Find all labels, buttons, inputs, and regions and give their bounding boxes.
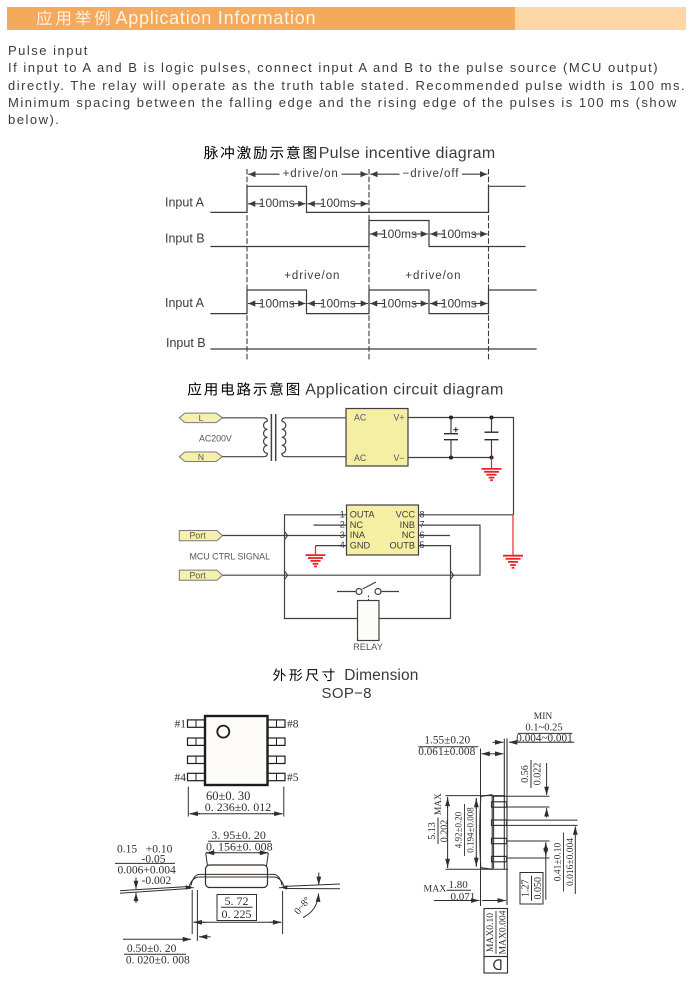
svg-text:100ms: 100ms bbox=[259, 196, 295, 210]
width dimension line bbox=[190, 813, 200, 815]
svg-text:+drive/on: +drive/on bbox=[405, 270, 461, 282]
svg-text:MAX0.004: MAX0.004 bbox=[497, 910, 508, 954]
flatness box bbox=[484, 909, 508, 957]
body end view outline bbox=[480, 795, 493, 870]
body left extension line bbox=[480, 749, 482, 907]
svg-text:0.56: 0.56 bbox=[520, 765, 531, 783]
lead tip line outer bbox=[506, 739, 508, 906]
hop mark OUTA-INB crossing bbox=[285, 571, 288, 579]
timing diagram title bbox=[204, 146, 218, 159]
svg-text:0. 020±0. 008: 0. 020±0. 008 bbox=[126, 955, 190, 967]
svg-text:Application Information: Application Information bbox=[116, 8, 317, 28]
Port 1 flag bbox=[179, 531, 222, 541]
left thickness arrow down bbox=[135, 878, 137, 890]
left tolerance underline bbox=[115, 862, 175, 864]
svg-text:0.050: 0.050 bbox=[533, 877, 544, 900]
svg-text:0.202: 0.202 bbox=[440, 820, 451, 843]
svg-text:−drive/off: −drive/off bbox=[403, 168, 460, 180]
wire NC pin2 stub bbox=[314, 524, 347, 526]
svg-text:0. 225: 0. 225 bbox=[222, 907, 252, 921]
svg-text:V−: V− bbox=[393, 453, 404, 463]
waveform Input A row1 bbox=[211, 186, 525, 212]
flatness symbol box bbox=[484, 957, 508, 974]
0.56 pin lines bbox=[492, 795, 549, 797]
1.27 boxed rotated text bbox=[520, 873, 543, 905]
foot extension line inner bbox=[196, 890, 198, 941]
wire VCC from rail to pin8 bbox=[419, 514, 514, 516]
relay contact switch bbox=[337, 591, 356, 593]
svg-text:MIN: MIN bbox=[534, 712, 553, 722]
100ms arrows B row1 seg2 bbox=[431, 233, 445, 235]
pin 7 bbox=[268, 738, 286, 745]
transformer T1 primary coil bbox=[264, 421, 268, 453]
capacitor C2 bbox=[491, 418, 493, 432]
dashed line t1 bbox=[246, 170, 248, 362]
waveform Input B row1 bbox=[211, 221, 525, 247]
4.92 rotated text bbox=[454, 804, 476, 856]
waveform Input A row2 bbox=[211, 290, 536, 314]
svg-text:RELAY: RELAY bbox=[353, 642, 383, 652]
ground G2 drop bbox=[503, 515, 523, 568]
left thickness arrow up bbox=[135, 893, 137, 903]
svg-text:INB: INB bbox=[400, 520, 415, 530]
header title bbox=[37, 8, 317, 28]
svg-text:0.194±0.008: 0.194±0.008 bbox=[466, 807, 476, 853]
svg-text:SOP−8: SOP−8 bbox=[322, 685, 372, 702]
svg-text:0.50±0. 20: 0.50±0. 20 bbox=[127, 943, 177, 955]
svg-text:VCC: VCC bbox=[396, 510, 416, 520]
pin 8 bbox=[268, 720, 286, 727]
lead length underline bbox=[418, 746, 478, 748]
svg-text:#8: #8 bbox=[287, 719, 299, 731]
right thickness arrow down bbox=[318, 873, 320, 885]
body bottom extension bbox=[446, 868, 509, 870]
left foot bbox=[188, 887, 194, 889]
circuit diagram title bbox=[188, 382, 201, 396]
relay driver IC U2 bbox=[347, 505, 419, 555]
wire V+ rail bbox=[408, 418, 514, 515]
transformer T1 secondary coil bbox=[282, 421, 286, 453]
right lead wedge leader bbox=[285, 884, 341, 886]
svg-text:0. 236±0. 012: 0. 236±0. 012 bbox=[205, 800, 272, 814]
svg-text:1.55±0.20: 1.55±0.20 bbox=[424, 735, 470, 747]
switch to coil dotted link bbox=[368, 596, 370, 601]
waveform Input B row2 bbox=[211, 348, 536, 350]
svg-text:100ms: 100ms bbox=[441, 297, 477, 311]
svg-text:Dimension: Dimension bbox=[344, 667, 418, 684]
svg-text:AC200V: AC200V bbox=[199, 434, 232, 444]
svg-text:+drive/on: +drive/on bbox=[283, 168, 339, 180]
svg-text:1.27: 1.27 bbox=[521, 880, 532, 898]
bottom width extension left bbox=[191, 890, 193, 934]
foot dimension arrow bbox=[199, 936, 211, 938]
svg-text:+drive/on: +drive/on bbox=[284, 270, 340, 282]
wire L to transformer bbox=[222, 418, 267, 422]
svg-text:5. 72: 5. 72 bbox=[225, 894, 249, 908]
pin shoulder line bbox=[493, 796, 495, 869]
pin stub 1 bbox=[492, 802, 507, 807]
svg-text:Port: Port bbox=[190, 531, 207, 541]
foot leader line bbox=[123, 938, 183, 940]
wire V- rail bbox=[408, 457, 492, 459]
pin stub 3 bbox=[492, 838, 507, 843]
svg-text:0~8°: 0~8° bbox=[292, 895, 313, 917]
terminal L bbox=[179, 413, 222, 423]
wire INB via Port2 bbox=[222, 525, 480, 575]
top width extension right bbox=[267, 853, 269, 866]
svg-text:INA: INA bbox=[350, 530, 366, 540]
svg-text:V+: V+ bbox=[393, 413, 404, 423]
wire OUTB loop right bbox=[379, 546, 451, 619]
wire OUTA loop left bbox=[285, 515, 358, 619]
100ms arrows A row2 seg3 bbox=[371, 303, 385, 305]
package body side view bbox=[206, 865, 268, 888]
hop mark OUTA-INA crossing bbox=[285, 531, 288, 539]
svg-text:0.022: 0.022 bbox=[533, 763, 544, 786]
bottom width dimension line bbox=[194, 921, 205, 923]
lead shoulder top line bbox=[191, 874, 282, 885]
svg-text:100ms: 100ms bbox=[381, 297, 417, 311]
svg-text:#1: #1 bbox=[175, 719, 187, 731]
transformer T1 core bbox=[270, 414, 272, 461]
standoff dim arrows bbox=[493, 741, 504, 743]
top width extension left bbox=[206, 853, 208, 866]
svg-text:Input B: Input B bbox=[165, 231, 205, 245]
wire Port1 to INA bbox=[222, 535, 346, 537]
pin stub 4 bbox=[492, 856, 507, 861]
svg-text:5.13: 5.13 bbox=[427, 822, 438, 840]
wire NC pin6 stub bbox=[419, 535, 451, 537]
pin 5 bbox=[268, 773, 286, 780]
svg-text:0. 156±0. 008: 0. 156±0. 008 bbox=[206, 840, 273, 854]
ground G3 bbox=[306, 546, 326, 567]
pin 6 bbox=[268, 756, 286, 763]
top width dimension line bbox=[206, 852, 216, 854]
Port 2 flag bbox=[179, 570, 222, 580]
right foot bbox=[279, 887, 285, 889]
terminal N bbox=[179, 452, 222, 462]
svg-text:-0.002: -0.002 bbox=[142, 875, 172, 887]
0.41 pin lines bbox=[507, 819, 578, 821]
width extension line right bbox=[283, 787, 285, 817]
wire secondary bottom to converter bbox=[282, 453, 346, 457]
svg-text:100ms: 100ms bbox=[381, 227, 417, 241]
body top extension bbox=[446, 795, 506, 797]
pin1 index dot bbox=[217, 726, 229, 738]
1.27 pin lines bbox=[507, 840, 550, 842]
pin 3 bbox=[188, 756, 206, 763]
svg-text:100ms: 100ms bbox=[320, 297, 356, 311]
bottom width box bbox=[217, 895, 257, 921]
svg-text:Input A: Input A bbox=[165, 296, 205, 310]
svg-text:MAX: MAX bbox=[424, 884, 447, 895]
ground G1 bbox=[482, 458, 502, 481]
100ms arrows A row2 seg1 bbox=[249, 303, 263, 305]
pin 1 bbox=[188, 720, 206, 727]
foot text underline bbox=[124, 953, 186, 955]
+drive/on annotation row1 bbox=[249, 173, 279, 175]
pin 2 bbox=[188, 738, 206, 745]
left lead wedge leader bbox=[120, 886, 191, 890]
0.41 arrow bbox=[574, 826, 576, 894]
0.56 arrows bbox=[546, 763, 548, 795]
lead angle arc bbox=[303, 894, 319, 918]
100ms arrows B row1 seg1 bbox=[371, 233, 385, 235]
svg-text:OUTA: OUTA bbox=[350, 510, 376, 520]
0.56 rotated text bbox=[520, 760, 544, 788]
svg-text:Port: Port bbox=[190, 570, 207, 580]
hop mark OUTB-INB crossing bbox=[451, 571, 454, 579]
svg-text:Application circuit diagram: Application circuit diagram bbox=[305, 382, 504, 399]
100ms arrows A row2 seg2 bbox=[308, 303, 322, 305]
wire GND pin4 bbox=[316, 545, 347, 547]
-drive/off annotation row1 bbox=[371, 173, 399, 175]
svg-text:AC: AC bbox=[354, 453, 367, 463]
pin 4 bbox=[188, 773, 206, 780]
svg-text:4.92±0.20: 4.92±0.20 bbox=[454, 811, 464, 848]
svg-text:0.016±0.004: 0.016±0.004 bbox=[566, 838, 576, 886]
dashed line t3 bbox=[488, 170, 490, 362]
pin stub 2 bbox=[492, 820, 507, 825]
node C2 bottom bbox=[490, 456, 494, 460]
paragraph bbox=[8, 42, 696, 129]
node C1 bottom bbox=[449, 456, 453, 460]
seating dim arrows bbox=[434, 900, 479, 902]
1.27 arrows bbox=[545, 842, 547, 900]
relay coil K1 bbox=[358, 601, 380, 641]
node C1 top bbox=[449, 416, 453, 420]
svg-text:#5: #5 bbox=[287, 772, 299, 784]
svg-text:Input A: Input A bbox=[165, 196, 205, 210]
svg-text:100ms: 100ms bbox=[320, 196, 356, 210]
lead shoulder bottom line bbox=[189, 877, 285, 888]
standoff underline bbox=[518, 732, 573, 734]
100ms arrows A row1 seg2 bbox=[308, 203, 322, 205]
svg-text:MAX: MAX bbox=[434, 793, 444, 815]
header bar dark bbox=[7, 7, 515, 31]
wire secondary top to converter bbox=[282, 418, 346, 422]
svg-text:NC: NC bbox=[402, 530, 416, 540]
4.92 dim line bbox=[475, 798, 477, 867]
svg-text:N: N bbox=[198, 452, 204, 462]
capacitor C1 polarized bbox=[450, 418, 452, 434]
standoff edge line left bbox=[503, 739, 505, 755]
svg-text:OUTB: OUTB bbox=[389, 540, 415, 550]
lead length dim arrows bbox=[482, 753, 493, 755]
svg-text:AC: AC bbox=[354, 413, 367, 423]
svg-text:L: L bbox=[199, 413, 204, 423]
bottom width extension right bbox=[282, 891, 284, 934]
AC/DC converter module U1 bbox=[346, 409, 408, 467]
svg-text:Pulse incentive diagram: Pulse incentive diagram bbox=[319, 145, 496, 162]
svg-text:MAX0.10: MAX0.10 bbox=[485, 913, 496, 952]
svg-text:0.061±0.008: 0.061±0.008 bbox=[418, 746, 475, 758]
svg-text:GND: GND bbox=[350, 540, 371, 550]
svg-text:MCU CTRL SIGNAL: MCU CTRL SIGNAL bbox=[190, 552, 271, 562]
top width underline bbox=[208, 840, 271, 842]
width extension line left bbox=[187, 787, 189, 817]
SOP-8 body top view bbox=[205, 716, 268, 785]
svg-text:100ms: 100ms bbox=[441, 227, 477, 241]
0.41 rotated text bbox=[554, 833, 577, 892]
svg-text:1.80: 1.80 bbox=[449, 879, 469, 891]
node C2 top bbox=[490, 416, 494, 420]
100ms arrows A row1 seg1 bbox=[249, 203, 263, 205]
lead tip line inner bbox=[503, 755, 505, 870]
svg-text:0.41±0.10: 0.41±0.10 bbox=[554, 843, 564, 882]
svg-text:Input B: Input B bbox=[166, 336, 206, 350]
svg-text:#4: #4 bbox=[175, 772, 187, 784]
dashed line t2 bbox=[368, 170, 370, 362]
dimension section title bbox=[273, 668, 286, 681]
svg-text:NC: NC bbox=[350, 520, 364, 530]
5.13 MAX rotated text bbox=[427, 793, 451, 844]
100ms arrows A row2 seg4 bbox=[431, 303, 445, 305]
svg-text:8: 8 bbox=[420, 509, 425, 519]
header bar light bbox=[515, 7, 686, 31]
wire N to transformer bbox=[222, 453, 267, 457]
5.13 dim line bbox=[447, 797, 449, 868]
svg-text:100ms: 100ms bbox=[259, 297, 295, 311]
